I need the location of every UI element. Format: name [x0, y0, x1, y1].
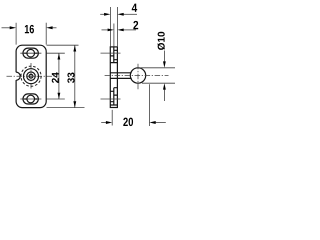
dim 4 left extension — [109, 7, 111, 47]
bottom slot outer oval — [23, 94, 38, 104]
top slot side centerline — [101, 52, 121, 54]
boss inner ring — [27, 72, 35, 80]
front view: mounting plate outline — [16, 45, 46, 107]
bottom slot center extension line — [47, 98, 65, 100]
boss horizontal centerline — [7, 75, 55, 77]
ball vertical centerline — [137, 64, 139, 90]
profile top slot section zigzag — [110, 47, 117, 63]
dim 20 right extension — [148, 84, 150, 126]
dim 4 text — [132, 4, 137, 12]
stud stem — [110, 73, 131, 79]
side view: plate profile — [110, 47, 117, 108]
top slot outer oval — [23, 48, 38, 58]
ball top tangent extension — [140, 67, 176, 69]
top slot centerline — [20, 52, 41, 54]
dim 4 right extension — [116, 7, 118, 46]
dim 16 left extension line — [15, 23, 17, 45]
dim 2 left extension — [113, 24, 115, 47]
dim 20 left extension — [111, 110, 113, 126]
dim 2 left arrow — [102, 29, 108, 31]
dim D10 leader bottom — [163, 89, 165, 101]
dim 16 text — [25, 25, 34, 34]
dim 2 text — [133, 21, 138, 29]
bottom slot centerline — [20, 98, 41, 100]
ball — [130, 68, 145, 83]
dim 16 left arrow — [2, 27, 11, 29]
boss ring — [24, 69, 39, 84]
profile bottom slot section zigzag — [110, 88, 117, 105]
dim 24 text — [52, 72, 59, 83]
dim 2 right arrow — [123, 29, 136, 31]
bottom slot side centerline — [101, 98, 121, 100]
main horizontal centerline — [105, 75, 169, 77]
notch erase on left edge — [15, 72, 17, 80]
boss vertical centerline — [30, 63, 32, 90]
bottom slot inner circle — [27, 95, 35, 103]
dim 20 right arrow — [155, 122, 165, 124]
dim 24 line — [58, 53, 60, 99]
ball bottom tangent extension — [142, 82, 175, 84]
boss outer dashed circle — [21, 66, 41, 86]
dim 20 text — [123, 118, 133, 127]
dim 33 line — [74, 45, 76, 107]
dim 16 right arrow — [52, 27, 57, 29]
plate top extension line — [47, 44, 79, 46]
dim 4 left arrow — [100, 13, 104, 15]
plate bottom extension line — [47, 107, 85, 109]
boss center circle — [29, 74, 33, 78]
dim D10 leader top — [163, 51, 165, 63]
dim 4 right arrow — [123, 13, 137, 15]
dim 20 left arrow — [101, 122, 106, 124]
top slot countersink edges — [24, 52, 37, 54]
notch semicircle — [16, 72, 20, 80]
top slot inner circle — [27, 49, 35, 57]
bottom slot countersink edges — [24, 98, 37, 100]
dim D10 text — [157, 32, 165, 50]
top slot center extension line — [47, 52, 65, 54]
dim 33 text — [67, 73, 74, 84]
dim 16 right extension line — [45, 23, 47, 45]
